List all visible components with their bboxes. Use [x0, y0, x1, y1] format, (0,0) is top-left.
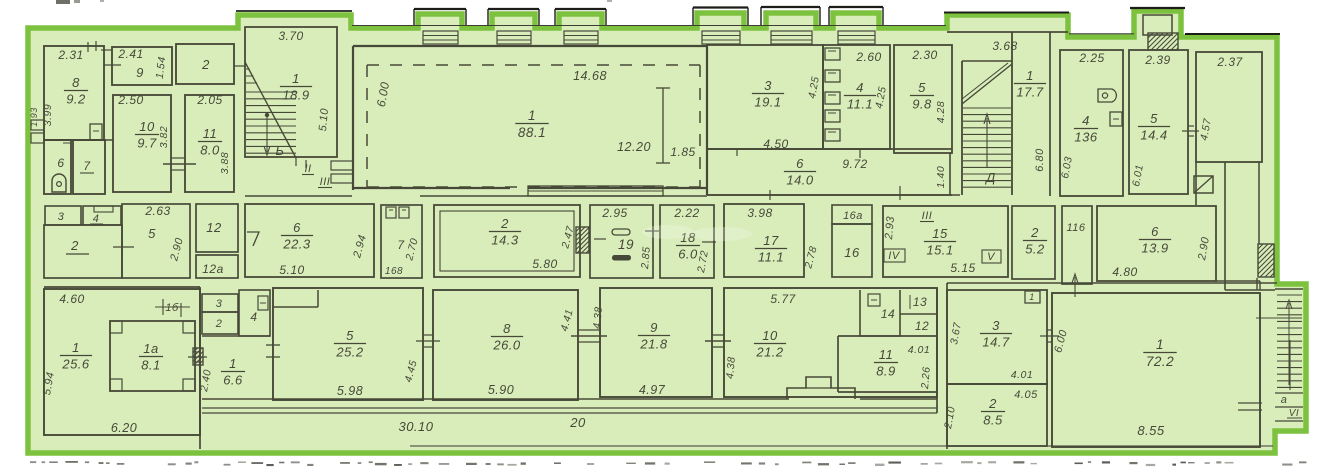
svg-text:9.72: 9.72 [842, 157, 867, 171]
room 9 [112, 47, 172, 85]
svg-text:11: 11 [203, 126, 218, 141]
room 3 small [45, 206, 81, 225]
svg-text:2.95: 2.95 [601, 206, 627, 220]
wall from 13.9 to right edge [1216, 280, 1260, 282]
stair D treads [963, 107, 1011, 109]
svg-text:8: 8 [72, 75, 80, 90]
corridor above room 1br [947, 282, 1277, 284]
ticks near 2.37 [1188, 125, 1194, 127]
room 4 bottom [239, 290, 270, 336]
svg-text:1.40: 1.40 [935, 166, 947, 188]
svg-text:5: 5 [918, 80, 926, 95]
svg-text:4.01: 4.01 [1011, 369, 1033, 381]
door ticks room6 [736, 149, 738, 156]
ticks room19 walls [594, 238, 606, 240]
ticks into stair VI [1256, 317, 1302, 319]
small rect b room19 [612, 255, 631, 261]
door ticks rooms2m-5m [113, 246, 134, 248]
staircase B arrow [266, 116, 268, 152]
svg-text:19.1: 19.1 [754, 95, 781, 110]
svg-text:13.9: 13.9 [1141, 241, 1168, 256]
svg-text:5.80: 5.80 [532, 257, 557, 271]
svg-text:1: 1 [72, 340, 80, 355]
svg-text:30.10: 30.10 [398, 419, 433, 434]
svg-text:8.1: 8.1 [141, 358, 161, 373]
room 4 small [83, 206, 121, 225]
small box symbol room4b [1110, 112, 1122, 126]
svg-text:15.1: 15.1 [926, 243, 953, 258]
wall marks y140 [44, 139, 113, 141]
svg-text:4.97: 4.97 [639, 383, 666, 397]
svg-text:8.5: 8.5 [983, 413, 1003, 428]
stair D arrow [986, 118, 988, 168]
svg-text:2.22: 2.22 [673, 206, 699, 220]
hatched shaft mid [576, 227, 589, 253]
room 18 (6.0) [660, 205, 714, 278]
svg-text:2.25: 2.25 [1078, 51, 1104, 65]
svg-text:7: 7 [397, 238, 405, 252]
door ticks room8 [87, 42, 89, 52]
svg-text:IV: IV [888, 250, 901, 262]
svg-text:1.85: 1.85 [670, 145, 695, 159]
svg-text:8.9: 8.9 [876, 364, 896, 379]
door ticks 1a [195, 351, 200, 353]
hall outer walls [353, 45, 707, 47]
door ticks 10b [712, 334, 724, 336]
room 6 (13.9) [1097, 206, 1216, 281]
dim line vertical [662, 88, 664, 163]
corridor bottom lower wall [202, 407, 937, 409]
hatched box left bottom [193, 348, 203, 365]
room 16a [832, 205, 872, 224]
svg-text:2.85: 2.85 [639, 246, 653, 270]
svg-text:2.37: 2.37 [1216, 55, 1243, 69]
svg-text:11.1: 11.1 [758, 250, 784, 265]
room 19 [590, 205, 653, 278]
svg-text:6.20: 6.20 [111, 421, 137, 435]
room 5 (25.2) [273, 288, 423, 400]
svg-text:5: 5 [346, 328, 354, 343]
svg-text:2.30: 2.30 [911, 48, 937, 62]
svg-text:5.15: 5.15 [950, 261, 975, 275]
svg-text:72.2: 72.2 [1146, 354, 1174, 369]
svg-text:21.8: 21.8 [639, 337, 668, 352]
ink line over top wall (left run) [352, 25, 946, 27]
svg-text:17.7: 17.7 [1016, 85, 1044, 100]
svg-text:4.01: 4.01 [908, 344, 930, 356]
room 1 (25.6) big [44, 289, 200, 435]
svg-text:6: 6 [796, 156, 804, 171]
svg-text:88.1: 88.1 [518, 125, 546, 140]
window sill under protrusion 1 [423, 31, 458, 44]
svg-text:4.05: 4.05 [1014, 389, 1038, 401]
svg-text:10: 10 [139, 119, 155, 134]
room 3 (14.7) [947, 290, 1047, 384]
black cap over protrusion 4 [693, 6, 748, 8]
room 10 (21.2) [724, 288, 937, 397]
svg-text:8.0: 8.0 [200, 143, 220, 158]
hall lower window box [528, 186, 663, 196]
stair VI arrow [1288, 303, 1290, 385]
window sill under protrusion 5 [771, 31, 812, 44]
black cap over wide bay [944, 12, 1069, 14]
svg-text:3: 3 [216, 298, 223, 310]
stair VI mid rail [1289, 340, 1291, 390]
svg-text:12.20: 12.20 [617, 140, 651, 154]
shaft 116 [1062, 206, 1092, 284]
svg-text:5.98: 5.98 [337, 384, 363, 398]
black cap top-right corner [1185, 33, 1280, 35]
svg-text:3: 3 [764, 78, 772, 93]
small box above room4b [258, 296, 268, 310]
door gap ticks rooms 10-11 [171, 157, 185, 159]
svg-text:4: 4 [250, 310, 257, 324]
door ticks below stair block [295, 158, 297, 166]
stair VI top wall [1275, 288, 1303, 290]
corridor bump [787, 377, 855, 399]
room 11 (8.0) [185, 95, 234, 192]
room 8 (9.2) [44, 46, 104, 140]
room 10 (9.7) [113, 95, 171, 192]
stair VI lower box [1275, 392, 1303, 394]
svg-text:5: 5 [148, 226, 156, 241]
room 1 (72.2) [1052, 293, 1260, 447]
svg-text:3: 3 [992, 318, 1000, 333]
svg-text:4: 4 [93, 213, 100, 225]
svg-text:25.6: 25.6 [61, 357, 90, 372]
room 3 bottom [202, 294, 238, 312]
svg-text:17: 17 [763, 233, 779, 248]
room 16 [832, 224, 872, 277]
svg-text:3.70: 3.70 [278, 29, 303, 43]
svg-text:116: 116 [1066, 222, 1085, 234]
entry arrow top of 1br [1074, 277, 1076, 297]
small boxes room 7m [386, 207, 396, 218]
svg-text:14.68: 14.68 [573, 69, 607, 83]
svg-text:4.80: 4.80 [1112, 265, 1137, 279]
wall right of stair D [1049, 32, 1051, 196]
window sill under protrusion 3 [564, 31, 598, 44]
room 1a (8.1) [110, 321, 195, 391]
svg-text:14: 14 [881, 307, 895, 321]
svg-text:9: 9 [136, 65, 144, 80]
svg-text:21.2: 21.2 [755, 345, 784, 360]
stair D outer walls [961, 61, 963, 195]
svg-text:4.38: 4.38 [724, 356, 738, 379]
room 6 wc [44, 140, 71, 194]
ink line top-right run [1069, 33, 1134, 35]
room 12 [196, 204, 238, 252]
svg-text:19: 19 [618, 237, 634, 252]
svg-text:4.60: 4.60 [59, 292, 84, 306]
room 13 wall [900, 313, 937, 315]
boxed 1 symbol [1025, 291, 1040, 303]
wall below rooms 3b-4b [202, 335, 270, 337]
wall below 2.37 [1224, 162, 1226, 290]
svg-text:15: 15 [932, 226, 948, 241]
svg-text:13: 13 [913, 295, 927, 309]
svg-text:2.05: 2.05 [196, 93, 222, 107]
svg-text:6: 6 [293, 220, 301, 235]
staircase B treads [246, 91, 296, 93]
svg-text:Б: Б [276, 143, 285, 158]
svg-text:2.41: 2.41 [117, 47, 143, 61]
svg-text:2: 2 [215, 318, 223, 330]
svg-text:2: 2 [988, 396, 997, 411]
black cap over protrusion 6 [829, 6, 883, 8]
svg-text:3: 3 [58, 211, 65, 223]
door tick room2t [234, 65, 245, 67]
hall dashed inner left [366, 65, 368, 187]
roof cap over stair block [236, 10, 352, 12]
svg-text:6.0: 6.0 [678, 247, 698, 262]
svg-text:1: 1 [528, 108, 536, 123]
room 2 bottom [202, 312, 238, 334]
svg-text:25.2: 25.2 [335, 345, 364, 360]
radiator boxes on outer left wall [31, 120, 44, 130]
svg-text:2: 2 [1030, 225, 1039, 240]
svg-text:1б: 1б [165, 302, 179, 314]
svg-text:2: 2 [201, 57, 210, 72]
svg-text:18.9: 18.9 [282, 88, 309, 103]
svg-text:136: 136 [1074, 130, 1097, 145]
svg-text:1: 1 [1026, 68, 1034, 83]
room 11 (8.9) walls [838, 335, 937, 337]
door ticks 1br right [1238, 402, 1262, 404]
room 6 (22.3) [245, 204, 374, 277]
svg-text:2: 2 [500, 216, 509, 231]
svg-text:5.10: 5.10 [279, 263, 304, 277]
svg-text:6: 6 [1151, 224, 1159, 239]
svg-text:14.3: 14.3 [491, 233, 519, 248]
svg-text:16a: 16a [843, 210, 863, 222]
room 3 (19.1) [707, 45, 823, 149]
room 1a notches [110, 321, 122, 333]
room 14 walls [859, 290, 861, 336]
svg-text:8.55: 8.55 [1137, 423, 1165, 438]
hall left wall marks [331, 161, 353, 170]
svg-text:12: 12 [915, 319, 929, 333]
room 2 (5.2) [1012, 206, 1055, 279]
svg-text:8: 8 [503, 321, 511, 336]
svg-text:168: 168 [385, 266, 403, 277]
door swing room 6m [247, 232, 259, 246]
svg-text:6.6: 6.6 [223, 373, 243, 388]
corridor upper wall [245, 195, 352, 197]
room 4 (11.1) [823, 45, 890, 149]
stair D hypotenuse [962, 64, 1012, 104]
hatched shaft above room 5b [1148, 33, 1178, 50]
svg-text:2.93: 2.93 [883, 215, 897, 241]
svg-text:a: a [1281, 394, 1288, 406]
door ticks 1br [1047, 329, 1052, 331]
stair VI treads [1277, 294, 1302, 296]
staircase B hypotenuse [245, 62, 296, 158]
small shaft box below room 8 [90, 124, 102, 140]
svg-text:14.0: 14.0 [786, 173, 814, 188]
room 2 (14.3) [434, 205, 580, 277]
svg-text:12a: 12a [202, 262, 224, 276]
svg-text:5.90: 5.90 [488, 383, 514, 397]
svg-text:6: 6 [57, 156, 64, 170]
svg-text:9.7: 9.7 [137, 136, 157, 151]
svg-text:VI: VI [1289, 408, 1299, 419]
door latch symbol [1098, 89, 1116, 102]
corridor bottom upper wall [202, 398, 789, 400]
svg-text:10: 10 [762, 328, 778, 343]
svg-text:III: III [320, 176, 331, 188]
svg-text:22.3: 22.3 [282, 237, 311, 252]
room 7 mid [381, 205, 422, 278]
svg-text:2.39: 2.39 [1144, 53, 1170, 67]
room 17 (11.1) [724, 204, 804, 277]
black cap over protrusion 5 [761, 6, 820, 8]
svg-text:2.60: 2.60 [855, 50, 881, 64]
svg-text:4: 4 [856, 80, 864, 95]
svg-text:1a: 1a [143, 341, 158, 356]
room 8 (26.0) [433, 290, 578, 400]
svg-text:1: 1 [1029, 292, 1035, 302]
stair block walls [245, 27, 337, 157]
window sill under protrusion 6 [838, 31, 875, 44]
svg-text:9.2: 9.2 [66, 92, 86, 107]
wall x937-947 [936, 288, 938, 413]
building inner bottom line [410, 445, 1273, 447]
door ticks 8b [423, 334, 433, 336]
scanner edge speckles bottom [30, 461, 36, 463]
room 2 mid [44, 225, 122, 278]
svg-text:3.82: 3.82 [158, 126, 170, 148]
room 7 [73, 140, 105, 194]
svg-text:5.2: 5.2 [1025, 242, 1045, 257]
room 4 (136) [1060, 50, 1123, 196]
svg-text:6.80: 6.80 [1034, 148, 1046, 172]
svg-text:2.26: 2.26 [919, 366, 933, 390]
wall x200 vertical [199, 287, 201, 449]
svg-text:1: 1 [292, 71, 300, 86]
svg-text:2.63: 2.63 [144, 204, 170, 218]
staircase B upper treads [246, 68, 250, 70]
small box room14 [868, 294, 880, 306]
hall dashed inner bottom [367, 186, 700, 188]
svg-text:2.50: 2.50 [117, 93, 143, 107]
room 9 (21.8) [600, 288, 712, 397]
door ticks 9b [578, 329, 600, 331]
svg-text:2.31: 2.31 [57, 48, 83, 62]
svg-text:14.4: 14.4 [1140, 128, 1167, 143]
small rect a room19 [612, 229, 630, 235]
svg-text:V: V [987, 251, 996, 263]
black cap over protrusion 3 [555, 8, 606, 10]
svg-text:5: 5 [1150, 111, 1158, 126]
room 5b notch [273, 306, 318, 308]
chimney inner box [1143, 15, 1172, 35]
hall dashed inner right [699, 65, 701, 187]
radiator column [825, 48, 840, 60]
room 12a [196, 255, 238, 278]
svg-text:5.10: 5.10 [317, 107, 331, 132]
svg-text:5.77: 5.77 [770, 292, 796, 306]
toilet symbol [52, 174, 66, 192]
svg-text:9.8: 9.8 [912, 97, 932, 112]
door ticks 5b [266, 344, 280, 346]
svg-text:12: 12 [206, 220, 222, 235]
room 2 top [176, 44, 234, 84]
hatched box right edge [1258, 244, 1274, 277]
svg-text:3.88: 3.88 [219, 152, 231, 174]
room 2 (8.5) [947, 384, 1047, 446]
box with diagonal [1194, 176, 1213, 193]
svg-text:7: 7 [83, 159, 91, 173]
svg-text:1: 1 [1156, 337, 1164, 352]
svg-text:Д: Д [984, 170, 996, 185]
scanner marks top [56, 0, 70, 4]
small marks above room4 [94, 206, 113, 212]
black cap over protrusion 2 [488, 8, 539, 10]
svg-text:3.98: 3.98 [747, 206, 772, 220]
faint watermark smudge [642, 225, 752, 241]
svg-text:III: III [922, 210, 933, 222]
svg-text:26.0: 26.0 [492, 338, 521, 353]
corridor mid wall left [44, 286, 200, 288]
room 6 (14.0) wide [707, 148, 952, 150]
svg-text:16: 16 [844, 245, 860, 260]
hall dashed inner top [367, 64, 700, 66]
svg-text:4.38: 4.38 [591, 306, 605, 329]
svg-text:3.68: 3.68 [992, 39, 1017, 53]
svg-text:2: 2 [70, 238, 79, 253]
black cap over protrusion 1 [414, 8, 466, 10]
svg-text:4: 4 [1082, 113, 1090, 128]
svg-text:14.7: 14.7 [982, 335, 1010, 350]
svg-text:9: 9 [650, 320, 658, 335]
room 2.37 hall [1196, 52, 1262, 162]
svg-text:1: 1 [229, 356, 237, 371]
window sill under protrusion 2 [497, 31, 531, 44]
room 5 (9.8) [894, 45, 952, 153]
black cap over chimney protrusion [1130, 7, 1185, 9]
room 5 (14.4) [1129, 50, 1188, 194]
window sill under protrusion 4 [702, 31, 740, 44]
svg-text:11: 11 [879, 347, 894, 362]
svg-text:11.1: 11.1 [847, 97, 873, 112]
svg-text:4.28: 4.28 [935, 101, 947, 123]
room 5 mid [122, 204, 190, 278]
svg-text:20: 20 [569, 415, 586, 430]
room 15 (15.1) [883, 206, 1008, 277]
